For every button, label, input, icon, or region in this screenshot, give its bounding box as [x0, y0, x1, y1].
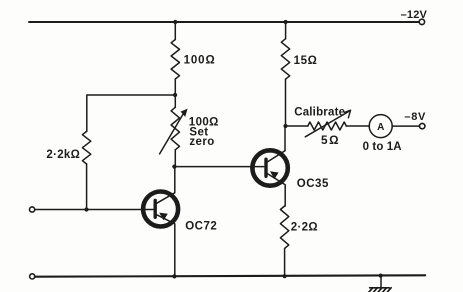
svg-text:A: A: [377, 122, 384, 133]
svg-text:OC72: OC72: [185, 221, 217, 233]
svg-text:Calibrate: Calibrate: [294, 106, 345, 118]
svg-text:15Ω: 15Ω: [294, 55, 318, 67]
svg-text:–12V: –12V: [401, 9, 428, 21]
svg-text:2·2kΩ: 2·2kΩ: [46, 149, 80, 161]
svg-text:2·2Ω: 2·2Ω: [291, 221, 318, 233]
svg-text:5Ω: 5Ω: [321, 133, 340, 147]
svg-text:zero: zero: [189, 136, 214, 148]
svg-text:OC35: OC35: [297, 178, 329, 190]
svg-text:–8V: –8V: [404, 111, 426, 123]
svg-text:0 to 1A: 0 to 1A: [363, 141, 402, 153]
svg-text:100Ω: 100Ω: [184, 55, 216, 67]
